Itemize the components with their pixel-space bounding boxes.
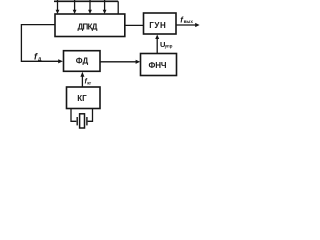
crystal resonator leads [71,109,76,122]
wire top bus [54,0,118,2]
svg-text:ДПКД: ДПКД [78,23,98,32]
svg-text:КГ: КГ [77,94,87,103]
wire FNCH to GUN U_upr [156,39,158,54]
wire bus arrow 4 [104,0,106,10]
box divider DPKD [55,14,125,37]
box crystal oscillator KG [67,87,101,109]
crystal left plate [76,117,78,125]
wire DPKD to GUN [125,24,144,26]
svg-text:д: д [38,56,42,62]
wire KG to FD f_kg [81,76,83,87]
wire bus arrow 3 [89,0,91,10]
svg-text:вых: вых [184,19,194,24]
crystal body rect [80,114,85,128]
svg-text:кг: кг [87,81,91,86]
wire FD to FNCH [100,61,136,63]
wire feedback DPKD to FD [21,25,58,62]
wire bus arrow 2 [74,0,76,10]
crystal right plate [86,117,88,125]
wire GUN output f_out [176,24,196,26]
box VCO GUN [144,13,177,34]
box low-pass filter FNCH [141,54,177,76]
svg-text:ФД: ФД [76,56,89,65]
box phase detector FD [64,51,101,72]
svg-text:упр: упр [165,44,173,49]
svg-text:ФНЧ: ФНЧ [149,61,167,70]
svg-text:ГУН: ГУН [149,21,166,30]
wire bus arrow 1 [57,0,59,10]
wire bus right drop [117,1,119,14]
